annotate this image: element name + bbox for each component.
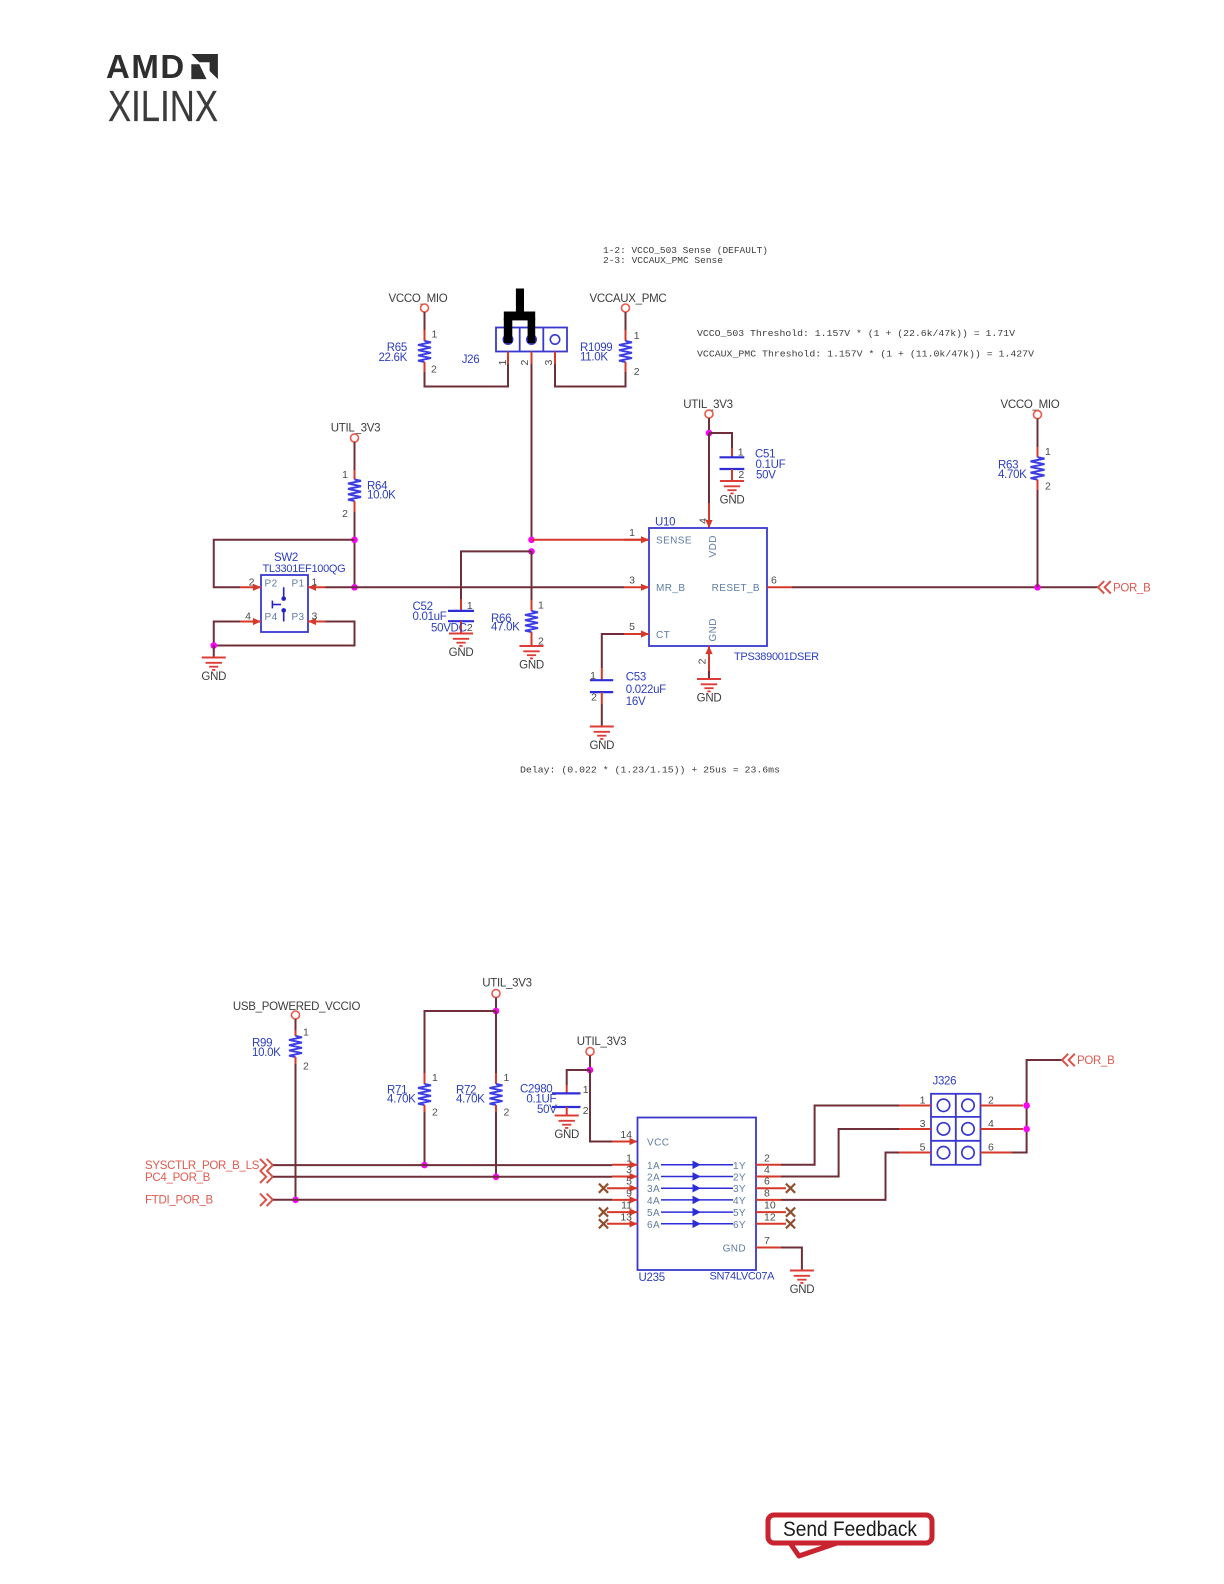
svg-text:J26: J26: [462, 354, 480, 366]
svg-text:2: 2: [634, 366, 640, 378]
wire MR_B to U10 pin3: [355, 586, 625, 588]
svg-text:SENSE: SENSE: [656, 536, 692, 547]
junction J326 pin4: [1023, 1126, 1030, 1133]
svg-text:1: 1: [583, 1084, 589, 1096]
U235 no-connect X left: [599, 1184, 608, 1229]
svg-text:VCCAUX_PMC: VCCAUX_PMC: [590, 293, 667, 305]
power flag UTIL_3V3 at C2980: [577, 1036, 626, 1056]
svg-text:SN74LVC07A: SN74LVC07A: [710, 1271, 776, 1283]
U235 right pin stubs: [756, 1152, 786, 1224]
wire 2Y to J326 pin3: [781, 1129, 899, 1177]
svg-text:3: 3: [626, 1164, 632, 1176]
svg-text:14: 14: [620, 1129, 632, 1141]
ground GND below C2980: [554, 1116, 579, 1142]
wire branch to R71: [425, 1011, 497, 1073]
svg-text:2: 2: [1045, 481, 1051, 493]
junction MR_B node: [351, 584, 358, 591]
svg-text:2: 2: [738, 469, 744, 481]
svg-text:3: 3: [543, 360, 555, 366]
send feedback button: [768, 1515, 932, 1556]
svg-text:5: 5: [629, 621, 635, 633]
power flag VCCAUX_PMC: [590, 293, 667, 312]
svg-text:1: 1: [504, 1072, 510, 1084]
svg-text:12: 12: [764, 1211, 776, 1223]
svg-text:3A: 3A: [647, 1184, 660, 1195]
svg-text:UTIL_3V3: UTIL_3V3: [683, 399, 732, 411]
svg-text:7: 7: [764, 1235, 770, 1247]
wire SW2 P1 to MR_B node: [326, 586, 355, 588]
svg-text:5A: 5A: [647, 1208, 660, 1219]
power flag USB_POWERED_VCCIO: [233, 1001, 361, 1019]
port PC4_POR_B: [145, 1171, 273, 1184]
wire UTIL_3V3 down to R72: [495, 1011, 497, 1073]
svg-text:GND: GND: [720, 495, 745, 507]
junction J326 pin2: [1023, 1102, 1030, 1109]
svg-text:2A: 2A: [647, 1173, 660, 1184]
wire R1099 pin2 to J26 pin3: [555, 364, 626, 387]
wire VCCO_MIO to R63: [1037, 419, 1039, 447]
svg-text:GND: GND: [697, 693, 722, 705]
svg-text:VCCO_MIO: VCCO_MIO: [1001, 399, 1060, 411]
svg-text:8: 8: [764, 1187, 770, 1199]
svg-text:1: 1: [312, 577, 318, 589]
svg-text:2: 2: [504, 1107, 510, 1119]
U10 pin5 CT wire to C53: [602, 634, 624, 668]
svg-text:POR_B: POR_B: [1077, 1055, 1115, 1067]
svg-text:6A: 6A: [647, 1220, 660, 1231]
capacitor C53 0.022uF 16V: [590, 668, 666, 727]
ground GND below SW2: [201, 658, 226, 684]
wire R71 pin2 to SYSCTLR wire: [424, 1112, 426, 1165]
svg-text:VDD: VDD: [708, 535, 719, 557]
resistor R64 10.0K: [342, 469, 396, 520]
wire SW2 P4 to ground: [214, 622, 240, 646]
junction VCC-C2980: [587, 1067, 594, 1074]
wire RESET_B to POR_B: [792, 586, 1098, 588]
power flag VCCO_MIO left: [389, 293, 448, 312]
J26 pin stubs: [508, 352, 555, 365]
junction UTIL_3V3 split: [493, 1008, 500, 1015]
junction R72-2A: [493, 1174, 500, 1181]
resistor R72 4.70K: [456, 1072, 510, 1119]
wire R65 pin2 to J26 pin1: [425, 364, 509, 387]
svg-text:6: 6: [764, 1176, 770, 1188]
svg-text:2: 2: [697, 658, 709, 664]
svg-text:2Y: 2Y: [733, 1173, 746, 1184]
junction VDD-C51: [706, 430, 713, 437]
svg-text:P4: P4: [265, 612, 278, 623]
svg-text:1: 1: [738, 447, 744, 459]
ground GND below R66: [519, 646, 544, 672]
power flag UTIL_3V3 at R64: [331, 423, 380, 443]
port FTDI_POR_B: [145, 1194, 273, 1207]
svg-text:XILINX: XILINX: [108, 82, 218, 131]
port SYSCTLR_POR_B_LS: [145, 1159, 273, 1172]
svg-text:GND: GND: [589, 740, 614, 752]
svg-text:P2: P2: [265, 579, 278, 590]
svg-text:TL3301EF100QG: TL3301EF100QG: [263, 563, 346, 575]
J326 left pin stubs: [899, 1095, 931, 1154]
wire 1Y to J326 pin1: [781, 1106, 899, 1165]
U235 no-connect X right: [786, 1184, 795, 1229]
svg-text:4A: 4A: [647, 1196, 660, 1207]
svg-text:1: 1: [303, 1027, 309, 1039]
svg-text:1: 1: [432, 1072, 438, 1084]
svg-text:Delay: (0.022 * (1.23/1.15)): Delay: (0.022 * (1.23/1.15)) + 25us = 23…: [520, 765, 780, 776]
U235 left pin stubs: [607, 1152, 638, 1227]
power flag UTIL_3V3 at R71 R72: [482, 978, 531, 998]
svg-text:FTDI_POR_B: FTDI_POR_B: [145, 1195, 214, 1207]
IC U10 TPS389001DSER: [649, 517, 819, 664]
resistor R1099 11.0K: [580, 330, 640, 378]
svg-text:2: 2: [591, 692, 597, 704]
svg-text:2: 2: [467, 622, 473, 634]
svg-text:GND: GND: [723, 1244, 746, 1255]
power flag VCCO_MIO right: [1001, 399, 1060, 419]
U235 buffer gates: [661, 1161, 733, 1229]
wire R72 pin2 to PC4 wire: [495, 1112, 497, 1177]
port POR_B top: [1098, 581, 1151, 594]
J26 shunt jumper on pins 1-2: [504, 289, 535, 344]
svg-text:VCC: VCC: [647, 1138, 669, 1149]
svg-text:GND: GND: [449, 647, 474, 659]
junction sense-SENSE: [528, 537, 535, 544]
svg-text:9: 9: [626, 1187, 632, 1199]
svg-text:RESET_B: RESET_B: [712, 583, 760, 594]
wire J26 pin2 sense net down: [531, 364, 533, 540]
wire UTIL_3V3 to R64: [354, 442, 356, 470]
svg-text:11.0K: 11.0K: [580, 352, 608, 364]
svg-text:3: 3: [629, 574, 635, 586]
wire FTDI_POR_B to U235 4A: [273, 1199, 612, 1201]
svg-text:J326: J326: [933, 1076, 957, 1088]
svg-text:1: 1: [467, 600, 473, 612]
svg-text:AMD: AMD: [106, 48, 186, 85]
svg-text:4: 4: [764, 1164, 770, 1176]
svg-text:47.0K: 47.0K: [491, 622, 520, 634]
svg-text:1: 1: [629, 527, 635, 539]
wire J326 pin6 up to POR_B: [1012, 1060, 1062, 1153]
svg-text:PC4_POR_B: PC4_POR_B: [145, 1172, 211, 1184]
svg-text:11: 11: [621, 1200, 632, 1212]
wire UTIL_3V3 down to VCC node: [589, 1056, 591, 1071]
svg-text:0.022uF: 0.022uF: [626, 684, 666, 696]
svg-text:2: 2: [342, 508, 348, 520]
svg-text:U10: U10: [655, 517, 675, 529]
resistor R65 22.6K: [378, 329, 437, 376]
svg-text:3: 3: [920, 1118, 926, 1130]
svg-text:GND: GND: [519, 660, 544, 672]
svg-text:4.70K: 4.70K: [998, 469, 1027, 481]
svg-text:VCCAUX_PMC Threshold: 1.157V: VCCAUX_PMC Threshold: 1.157V * (1 + (11.…: [697, 349, 1034, 360]
svg-text:SYSCTLR_POR_B_LS: SYSCTLR_POR_B_LS: [145, 1160, 260, 1172]
svg-text:CT: CT: [656, 630, 670, 641]
capacitor C52 0.01uF 50VDC: [413, 599, 475, 635]
svg-text:POR_B: POR_B: [1113, 583, 1151, 595]
svg-text:P3: P3: [291, 612, 304, 623]
svg-text:2: 2: [249, 577, 255, 589]
wire 4Y to J326 pin5: [781, 1153, 899, 1200]
wire VDD node to U10 pin4: [708, 433, 710, 503]
wire SW2 P3 loop to ground: [214, 622, 355, 646]
wire PC4_POR_B to U235 2A: [273, 1176, 612, 1178]
capacitor C51 0.1UF 50V: [720, 447, 786, 482]
note jumper settings: [603, 245, 768, 266]
wire branch to C2980: [567, 1070, 590, 1085]
svg-text:4Y: 4Y: [733, 1196, 746, 1207]
svg-text:VCCO_MIO: VCCO_MIO: [389, 293, 448, 305]
power flag UTIL_3V3 at C51: [683, 399, 732, 418]
J26 pin numbers 1 2 3: [497, 360, 555, 366]
connector J326 2x3 header: [931, 1076, 981, 1165]
svg-text:1Y: 1Y: [733, 1161, 746, 1172]
svg-text:4.70K: 4.70K: [456, 1094, 485, 1106]
wire R64 pin2 down to MR_B node: [354, 512, 356, 587]
svg-text:1: 1: [342, 469, 348, 481]
ground GND below C51: [720, 481, 745, 507]
U10 pin6 RESET_B stub: [767, 574, 792, 587]
wire branch to C52: [461, 551, 532, 599]
wire USB_POWERED_VCCIO to R99: [295, 1019, 297, 1030]
svg-text:50V: 50V: [537, 1104, 557, 1116]
wire SENSE to U10 pin1: [532, 539, 650, 541]
svg-text:1: 1: [626, 1152, 632, 1164]
capacitor C2980 0.1UF 50V: [520, 1084, 589, 1118]
svg-text:1A: 1A: [647, 1161, 660, 1172]
svg-text:U235: U235: [639, 1272, 665, 1284]
svg-text:VCCO_503 Threshold: 1.157V *: VCCO_503 Threshold: 1.157V * (1 + (22.6k…: [697, 328, 1015, 339]
svg-text:1: 1: [634, 330, 640, 342]
svg-text:2: 2: [988, 1095, 994, 1107]
svg-text:2: 2: [764, 1152, 770, 1164]
svg-text:1: 1: [590, 670, 596, 682]
junction R71-1A: [421, 1162, 428, 1169]
wire sense down to R66: [531, 551, 533, 600]
wire VCC node to U235 pin14: [590, 1070, 612, 1142]
ground GND below U235: [790, 1271, 815, 1297]
U235 output pin names: [723, 1161, 746, 1255]
connector J26 3-pin header: [462, 328, 567, 367]
junction sense-C52 branch: [528, 548, 535, 555]
svg-text:C53: C53: [626, 672, 646, 684]
svg-text:UTIL_3V3: UTIL_3V3: [331, 423, 380, 435]
svg-text:Send Feedback: Send Feedback: [783, 1518, 917, 1541]
resistor R66 47.0K: [491, 600, 544, 648]
wire R63 pin2 to POR_B node: [1037, 490, 1039, 587]
svg-text:UTIL_3V3: UTIL_3V3: [482, 978, 531, 990]
svg-text:TPS389001DSER: TPS389001DSER: [734, 651, 819, 663]
resistor R63 4.70K: [998, 446, 1051, 493]
svg-text:5: 5: [920, 1142, 926, 1154]
svg-text:4: 4: [988, 1118, 994, 1130]
U10 pin2 GND stub: [697, 646, 713, 679]
svg-text:2: 2: [431, 364, 437, 376]
junction ground node SW2: [210, 642, 217, 649]
junction FTDI-R99: [292, 1197, 299, 1204]
wire branch to SW2 P2: [214, 540, 355, 588]
wire VCCO_MIO to R65: [424, 312, 426, 330]
U10 left pin stubs: [624, 527, 649, 638]
U235 pin7 GND stub: [756, 1235, 781, 1248]
svg-text:1: 1: [432, 329, 438, 341]
wire to GND below SW2: [213, 646, 215, 658]
AMD arrow mark: [191, 54, 218, 79]
IC U235 SN74LVC07A: [638, 1118, 776, 1285]
wire SYSCTLR_POR_B_LS to U235 1A: [273, 1164, 612, 1166]
svg-text:P1: P1: [291, 579, 304, 590]
wire branch to C51: [709, 433, 732, 448]
svg-text:4.70K: 4.70K: [387, 1094, 416, 1106]
svg-text:16V: 16V: [626, 696, 646, 708]
svg-text:50V: 50V: [756, 470, 776, 482]
svg-text:4: 4: [698, 518, 710, 524]
svg-text:MR_B: MR_B: [656, 583, 685, 594]
svg-text:1: 1: [920, 1095, 926, 1107]
svg-text:0.01uF: 0.01uF: [413, 611, 447, 623]
wire R99 pin2 down to FTDI_POR_B: [295, 1064, 297, 1200]
svg-text:4: 4: [245, 611, 251, 623]
junction POR_B-R63: [1034, 584, 1041, 591]
svg-text:13: 13: [620, 1211, 632, 1223]
svg-text:1: 1: [1045, 446, 1051, 458]
svg-text:10.0K: 10.0K: [367, 490, 396, 502]
wire UTIL_3V3 down to VDD node: [708, 418, 710, 433]
svg-text:UTIL_3V3: UTIL_3V3: [577, 1036, 626, 1048]
svg-text:1: 1: [538, 600, 544, 612]
svg-text:3: 3: [312, 611, 318, 623]
svg-text:3Y: 3Y: [733, 1184, 746, 1195]
port POR_B bottom: [1062, 1054, 1115, 1067]
U10 pin4 stub: [698, 503, 713, 528]
ground GND below C53: [589, 727, 614, 753]
wire UTIL_3V3 down: [495, 998, 497, 1012]
U235 pin14 stub: [612, 1129, 638, 1145]
SW2 pin stubs and numbers: [240, 577, 326, 626]
svg-text:GND: GND: [790, 1284, 815, 1296]
resistor R71 4.70K: [387, 1072, 438, 1119]
J326 right pin stubs: [981, 1095, 1024, 1154]
svg-text:2-3: VCCAUX_PMC Sense: 2-3: VCCAUX_PMC Sense: [603, 255, 723, 266]
wire VCCAUX_PMC to R1099: [625, 312, 627, 330]
svg-text:2: 2: [519, 360, 531, 366]
svg-text:2: 2: [432, 1107, 438, 1119]
ground GND below U10: [697, 679, 722, 705]
resistor R99 10.0K: [252, 1027, 309, 1073]
svg-text:6: 6: [988, 1142, 994, 1154]
ground GND below C52: [449, 634, 474, 660]
svg-text:10: 10: [764, 1200, 776, 1212]
svg-text:5: 5: [626, 1176, 632, 1188]
svg-text:22.6K: 22.6K: [378, 352, 407, 364]
U235 input pin names: [647, 1161, 660, 1231]
svg-text:GND: GND: [708, 618, 719, 641]
svg-text:GND: GND: [554, 1129, 579, 1141]
svg-text:2: 2: [303, 1061, 309, 1073]
svg-text:6: 6: [771, 574, 777, 586]
junction R64-SW2 upper: [351, 537, 358, 544]
wire U235 pin7 to GND: [781, 1248, 802, 1271]
svg-text:6Y: 6Y: [733, 1220, 746, 1231]
svg-text:2: 2: [583, 1105, 589, 1117]
svg-text:GND: GND: [201, 671, 226, 683]
svg-text:10.0K: 10.0K: [252, 1047, 281, 1059]
switch SW2 TL3301EF100QG: [261, 552, 345, 632]
svg-text:5Y: 5Y: [733, 1208, 746, 1219]
